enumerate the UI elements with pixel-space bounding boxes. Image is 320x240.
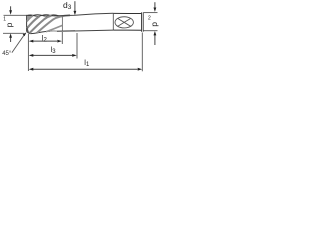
tapered neck top line (57, 13, 113, 15)
cutter face edge (26, 15, 28, 31)
chamfer corner (27, 31, 29, 33)
left extension line for l dims (27, 34, 29, 71)
svg-text:1: 1 (3, 16, 6, 22)
dimension d1 extension line bottom (3, 32, 24, 34)
dimension d2 extension line bottom (144, 30, 158, 32)
shank end face double line (141, 12, 143, 31)
l1 right extension line (141, 33, 143, 72)
flute helix curves (27, 15, 75, 33)
dimension d1 arrow bottom (9, 33, 12, 42)
svg-text:d: d (150, 22, 160, 27)
dimension l1 line (29, 68, 142, 71)
background (0, 0, 160, 74)
tapered neck bottom line (57, 30, 113, 31)
end mill cutter body (side view) (27, 15, 57, 34)
l2 right extension line (61, 32, 63, 44)
svg-text:45°: 45° (2, 51, 12, 57)
cutter bottom envelope (29, 31, 57, 34)
shank bottom edge (113, 29, 141, 31)
l3 right extension line (76, 33, 78, 59)
chamfer leader arrowhead (23, 32, 27, 36)
cutter top envelope (braided flute crossings) (27, 15, 59, 17)
dimension d1 extension line top (4, 14, 28, 16)
chamfer leader line (12, 35, 25, 53)
dimension l2 line (29, 40, 62, 43)
flute tooth shading near face (27, 16, 33, 20)
dimension d2 extension line top (144, 12, 158, 14)
label d1 (rotated) (3, 16, 15, 27)
svg-text:2: 2 (148, 16, 151, 22)
weldon flat symbol: ellipse with X (115, 17, 133, 28)
dimension d2 arrow top (154, 2, 157, 12)
svg-text:d: d (6, 23, 16, 28)
dimension l3 line (29, 54, 77, 57)
shank junction line (112, 13, 114, 30)
shank top edge (113, 12, 141, 14)
dimension d3 arrow (74, 1, 77, 15)
dimension d1 arrow top (9, 6, 12, 14)
label d2 (rotated) (148, 16, 160, 27)
dimension d2 arrow bottom (154, 31, 157, 45)
